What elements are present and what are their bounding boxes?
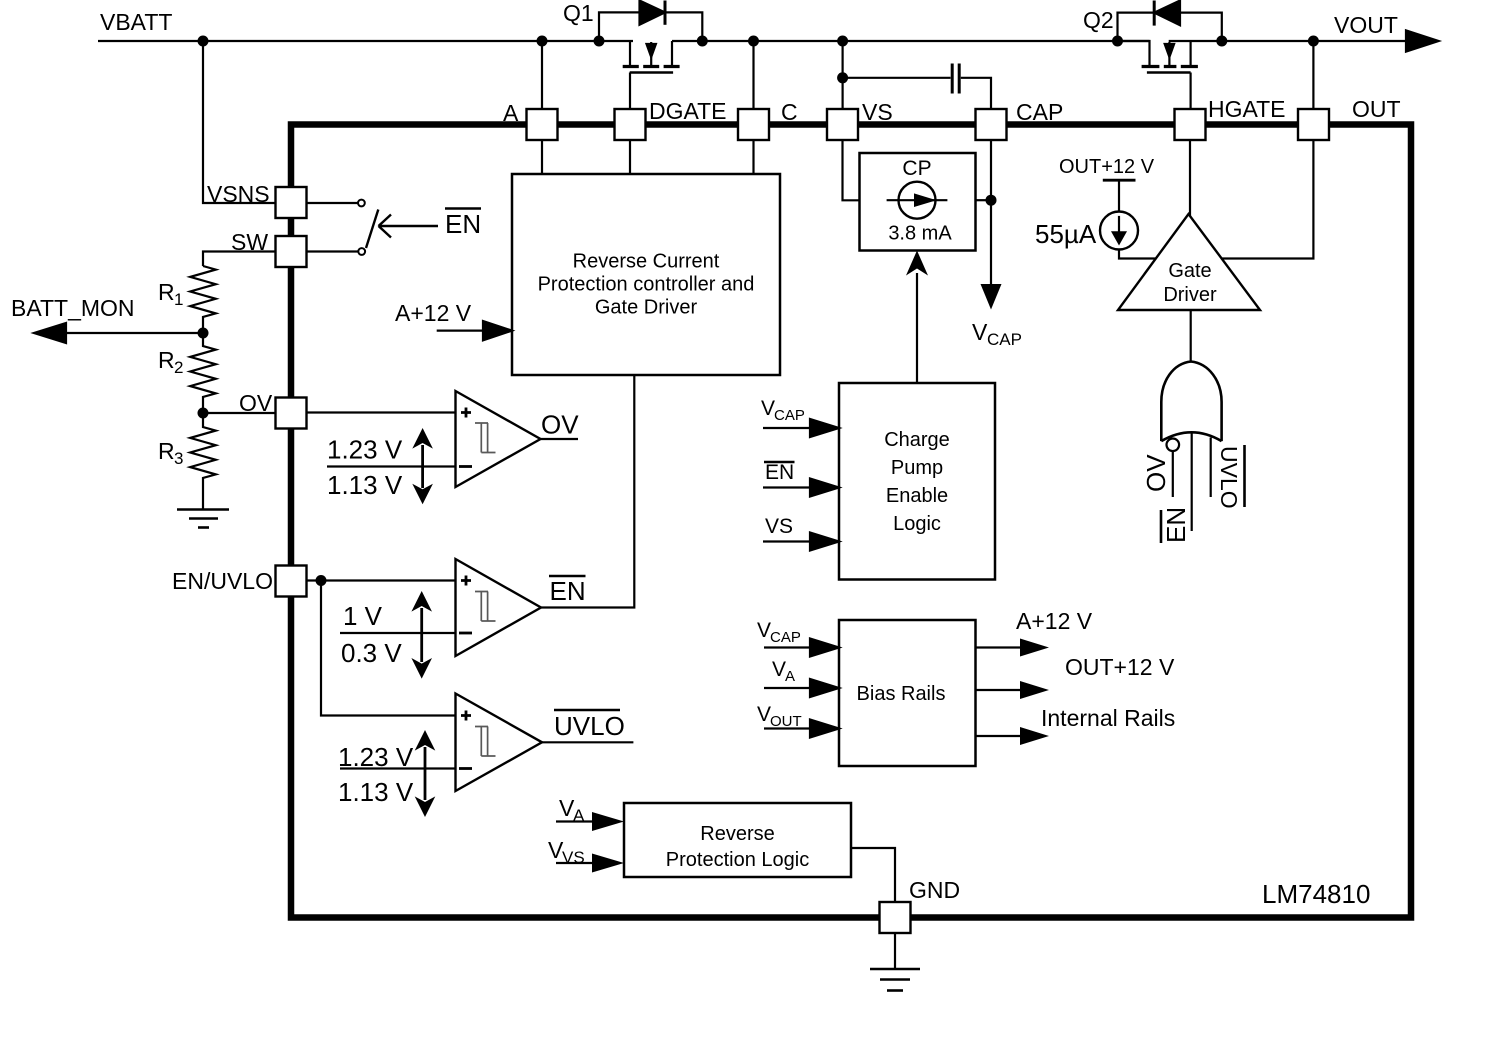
svg-text:3: 3 xyxy=(174,449,183,468)
wire GND pin to ground xyxy=(894,933,896,969)
OR gate inverted input bubble xyxy=(1167,439,1180,452)
pin VSNS xyxy=(276,187,307,218)
svg-text:C: C xyxy=(781,99,798,125)
current source CP 3.8 mA xyxy=(899,182,936,219)
node Q1 right dot xyxy=(697,36,708,47)
wire CP block to node xyxy=(976,199,992,201)
op-amp U2 OV comparator xyxy=(456,391,541,487)
wire Q1 drain stub xyxy=(629,41,631,65)
wire Q2 drain stub xyxy=(1189,41,1191,65)
svg-text:CAP: CAP xyxy=(987,330,1022,349)
svg-text:Internal Rails: Internal Rails xyxy=(1041,705,1175,731)
node Q2 right dot xyxy=(1216,36,1227,47)
pin SW xyxy=(276,236,307,267)
svg-text:OV: OV xyxy=(541,410,579,440)
svg-text:A+12 V: A+12 V xyxy=(1016,608,1093,634)
svg-text:A: A xyxy=(785,668,795,685)
svg-text:DGATE: DGATE xyxy=(649,98,727,124)
svg-text:3.8 mA: 3.8 mA xyxy=(888,223,952,245)
wire VS pin to CP block xyxy=(843,140,860,200)
wire Q1 source stub xyxy=(671,41,673,65)
svg-text:Pump: Pump xyxy=(891,457,943,479)
current source 55uA xyxy=(1100,212,1138,250)
capacitor between VS and CAP xyxy=(837,72,848,83)
svg-text:BATT_MON: BATT_MON xyxy=(11,295,135,321)
svg-text:EN: EN xyxy=(1161,507,1191,543)
svg-text:A+12 V: A+12 V xyxy=(395,300,472,326)
wire VBATT to VSNS xyxy=(203,41,276,203)
wire Q1 body-diode loop right xyxy=(665,12,702,41)
svg-text:EN: EN xyxy=(765,461,794,484)
svg-text:Bias Rails: Bias Rails xyxy=(857,683,946,705)
svg-text:Logic: Logic xyxy=(893,513,941,535)
svg-text:1.13 V: 1.13 V xyxy=(338,777,414,807)
pin C xyxy=(738,109,769,140)
svg-text:Protection controller and: Protection controller and xyxy=(538,274,755,296)
wire SW to resistor chain xyxy=(203,252,276,267)
wire charge pump enable to CP arrow xyxy=(916,273,918,383)
svg-text:CAP: CAP xyxy=(1016,99,1063,125)
wire Q2 body-diode loop right xyxy=(1180,13,1222,41)
svg-text:OUT+12 V: OUT+12 V xyxy=(1065,654,1175,680)
VOUT arrowhead xyxy=(1406,30,1439,51)
block U5 Reverse Current Protection controller xyxy=(512,174,780,375)
node VOUT dot xyxy=(1308,36,1319,47)
svg-text:Reverse Current: Reverse Current xyxy=(573,251,720,273)
svg-text:EN: EN xyxy=(550,576,586,606)
svg-text:LM74810: LM74810 xyxy=(1262,879,1370,909)
wire OV comparator output xyxy=(541,438,579,440)
svg-text:Q1: Q1 xyxy=(563,0,594,26)
wire SW pin to switch xyxy=(307,250,358,252)
svg-text:Reverse: Reverse xyxy=(700,823,774,845)
wire top rail VOUT segment xyxy=(1222,40,1407,42)
svg-text:1.13 V: 1.13 V xyxy=(327,470,403,500)
wire C pin to RCP block xyxy=(752,140,754,174)
svg-text:Driver: Driver xyxy=(1163,284,1217,306)
transistor Q2 gate bar xyxy=(1147,71,1191,73)
node A dot xyxy=(537,36,548,47)
svg-text:Q2: Q2 xyxy=(1083,7,1114,33)
svg-text:1 V: 1 V xyxy=(343,601,383,631)
wire Q1 diode cathode bar xyxy=(664,1,667,25)
pin DGATE xyxy=(615,109,646,140)
wire C pin to rail xyxy=(752,41,754,109)
wire Q2 body-diode loop left xyxy=(1118,13,1155,41)
OR gate U10 xyxy=(1161,362,1221,442)
pin GND xyxy=(880,902,911,933)
transistor Q2 contact bars xyxy=(1142,65,1198,68)
Internal Rails output of U7 xyxy=(976,735,1022,737)
wire Q2 source stub xyxy=(1118,41,1150,65)
resistor R2 xyxy=(190,333,216,413)
ground symbol GND xyxy=(870,968,920,971)
switch blade xyxy=(366,210,378,249)
wire Q2 gate to HGATE xyxy=(1189,73,1191,110)
wire VSNS to switch xyxy=(307,202,358,204)
svg-text:VS: VS xyxy=(765,515,793,538)
svg-text:0.3 V: 0.3 V xyxy=(341,638,402,668)
diode Q2 body diode xyxy=(1154,1,1180,26)
ground symbol below R3 xyxy=(177,508,229,511)
svg-text:UVLO: UVLO xyxy=(554,711,625,741)
wire HGATE pin to gate driver xyxy=(1189,140,1191,216)
svg-text:OUT: OUT xyxy=(1352,96,1401,122)
wire Q1 gate to DGATE xyxy=(629,73,631,110)
svg-text:V: V xyxy=(757,619,771,642)
svg-text:VS: VS xyxy=(862,99,893,125)
svg-text:R: R xyxy=(158,279,175,305)
svg-text:V: V xyxy=(772,658,786,681)
svg-text:Gate: Gate xyxy=(1168,260,1211,282)
wire top rail middle segment xyxy=(672,40,1150,42)
transistor Q1 gate bar xyxy=(630,71,673,73)
svg-text:Protection Logic: Protection Logic xyxy=(666,849,809,871)
pin VS xyxy=(827,109,858,140)
svg-text:55µA: 55µA xyxy=(1035,219,1097,249)
wire A pin to RCP block xyxy=(541,140,543,174)
amp U9 Gate Driver triangle xyxy=(1118,214,1260,310)
wire divider to OV pin xyxy=(203,412,276,414)
svg-text:EN: EN xyxy=(445,209,481,239)
wire OUT pin to gate driver xyxy=(1221,140,1314,259)
pin CAP xyxy=(976,109,1007,140)
node VS dot xyxy=(837,36,848,47)
node C dot xyxy=(748,36,759,47)
wire EN/UVLO pin to comparator U3 xyxy=(307,579,456,581)
wire UVLO comparator output xyxy=(542,741,633,743)
node VBATT branch dot xyxy=(198,36,209,47)
svg-text:UVLO: UVLO xyxy=(1216,446,1242,509)
node CP output dot xyxy=(986,195,997,206)
svg-text:A: A xyxy=(503,100,519,126)
pin A xyxy=(527,109,558,140)
svg-text:V: V xyxy=(757,703,771,726)
wire U4 minus threshold line xyxy=(340,767,456,769)
wire UVLO input to OR gate xyxy=(1210,438,1212,498)
BATT_MON arrowhead xyxy=(34,323,66,343)
node BATT_MON dot xyxy=(198,328,209,339)
transistor Q1 contact bars xyxy=(623,65,680,68)
wire OV pin to comparator U2 xyxy=(307,411,456,413)
wire EN/UVLO branch to U4 xyxy=(321,581,456,716)
svg-text:2: 2 xyxy=(174,358,183,377)
wire top rail Q2 segment xyxy=(1169,40,1222,42)
svg-text:VBATT: VBATT xyxy=(100,9,172,35)
wire VBATT top rail left segment xyxy=(98,40,633,42)
wire U2 minus threshold line xyxy=(327,465,456,467)
wire EN input to OR gate xyxy=(1191,433,1193,531)
wire BATT_MON xyxy=(66,332,203,334)
svg-text:CAP: CAP xyxy=(770,629,801,646)
wire gate driver to OR gate xyxy=(1190,310,1192,362)
svg-text:Charge: Charge xyxy=(884,429,950,451)
svg-text:HGATE: HGATE xyxy=(1208,96,1286,122)
resistor R1 xyxy=(190,266,216,333)
wire DGATE pin to RCP block xyxy=(629,140,631,174)
svg-text:1.23 V: 1.23 V xyxy=(327,435,403,465)
block U8 Reverse Protection Logic xyxy=(624,803,851,877)
svg-text:V: V xyxy=(761,397,775,420)
svg-text:VOUT: VOUT xyxy=(1334,12,1398,38)
wire OV input to OR gate xyxy=(1172,451,1174,497)
transistor Q2 body arrow xyxy=(1168,42,1170,67)
wire Q1 body-diode loop left xyxy=(599,12,640,41)
wire U3 minus threshold line xyxy=(340,632,456,634)
EN actuator arrow xyxy=(379,215,439,238)
node Q2 left dot xyxy=(1112,36,1123,47)
wire OUT pin to rail xyxy=(1312,41,1314,109)
node Q1 left dot xyxy=(594,36,605,47)
svg-text:EN/UVLO: EN/UVLO xyxy=(172,568,273,594)
node EN/UVLO dot xyxy=(316,575,327,586)
op-amp U3 EN comparator xyxy=(456,559,542,656)
threshold double arrow U3 xyxy=(420,608,423,662)
pin HGATE xyxy=(1175,109,1206,140)
svg-text:R: R xyxy=(158,438,175,464)
svg-text:1: 1 xyxy=(174,290,183,309)
U1 LM74810 IC boundary xyxy=(291,125,1411,918)
threshold double arrow U2 xyxy=(421,445,424,488)
threshold double arrow U4 xyxy=(424,747,427,800)
pin OV xyxy=(276,398,307,429)
svg-text:OV: OV xyxy=(1141,454,1171,492)
block CP charge pump xyxy=(860,153,976,251)
block U7 Bias Rails xyxy=(839,620,976,766)
svg-text:VSNS: VSNS xyxy=(207,181,270,207)
switch contact circle top xyxy=(358,200,365,207)
svg-text:1.23 V: 1.23 V xyxy=(338,742,414,772)
svg-text:OUT+12 V: OUT+12 V xyxy=(1059,156,1155,178)
svg-text:Gate Driver: Gate Driver xyxy=(595,297,698,319)
wire CAP pin down through node xyxy=(990,140,992,286)
svg-text:VS: VS xyxy=(562,848,585,867)
pin EN/UVLO xyxy=(276,566,307,597)
svg-text:R: R xyxy=(158,347,175,373)
VCAP down arrowhead xyxy=(981,284,1002,310)
svg-text:V: V xyxy=(972,319,988,345)
pin OUT xyxy=(1298,109,1329,140)
node OV divider dot xyxy=(198,408,209,419)
wire EN comparator output to RCP block xyxy=(541,375,634,608)
resistor R3 xyxy=(190,413,216,510)
svg-text:GND: GND xyxy=(909,877,960,903)
transistor Q1 body arrow xyxy=(650,42,652,67)
switch contact circle bottom xyxy=(358,248,365,255)
wire U8 output to GND pin xyxy=(851,848,895,902)
wire A pin to rail xyxy=(541,41,543,109)
wire 55uA to gate driver xyxy=(1119,250,1157,259)
OUT+12 V output of U7 xyxy=(976,689,1022,691)
op-amp U4 UVLO comparator xyxy=(456,694,543,792)
block U6 Charge Pump Enable Logic xyxy=(839,383,995,580)
A+12 V output of U7 xyxy=(976,646,1022,648)
svg-text:CP: CP xyxy=(902,157,931,180)
wire VS pin to rail xyxy=(841,41,843,109)
diode Q1 body diode xyxy=(640,1,666,25)
wire Q2 diode cathode bar xyxy=(1153,1,1156,26)
svg-text:CAP: CAP xyxy=(774,407,805,424)
svg-text:Enable: Enable xyxy=(886,485,948,507)
